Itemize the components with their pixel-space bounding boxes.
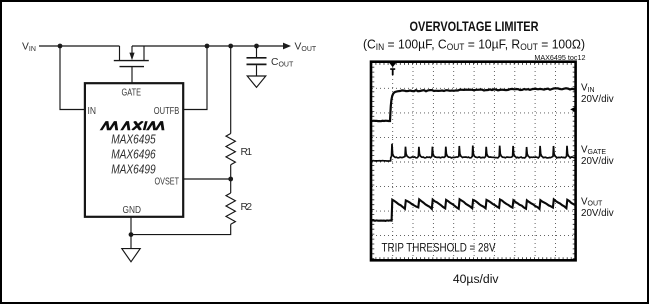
node VOUT label [295,42,317,54]
svg-text:MAX6496: MAX6496 [111,147,156,161]
node junction dot at VIN branch [58,44,63,49]
svg-text:GND: GND [123,205,142,216]
wire rail to R1 [230,46,232,134]
node junction dot R1 top [228,44,233,49]
svg-text:GATE: GATE [122,87,142,98]
pin IN label [88,106,97,117]
ground symbol main [122,249,140,262]
resistor R2 [226,193,235,224]
axis label 40us/div [453,272,500,286]
svg-text:40µs/div: 40µs/div [453,272,500,286]
svg-text:20V/div: 20V/div [581,156,614,167]
node junction dot COUT [254,44,259,49]
label VIN 20V/div [581,83,614,105]
node VIN label [22,42,36,54]
IC U1 MAX6495/MAX6496/MAX6499 [85,83,183,217]
MAXIM logo [100,121,166,132]
svg-text:(CIN = 100µF, COUT = 10µF, ROU: (CIN = 100µF, COUT = 10µF, ROUT = 100Ω) [363,37,585,53]
wire R1 to OVSET node [230,165,232,193]
pin OVSET label [155,176,180,187]
part number MAX6496 [111,147,156,161]
wire OUTFB feedback [184,46,208,110]
pin OUTFB label [154,106,180,117]
scope tick marks [372,62,575,259]
svg-text:20V/div: 20V/div [581,94,614,105]
title OVERVOLTAGE LIMITER [410,19,539,34]
svg-text:TRIP THRESHOLD = 28V: TRIP THRESHOLD = 28V [382,242,496,255]
wire GND pin down [130,217,132,249]
scope plot frame [371,62,576,261]
trigger marker T [389,63,396,75]
node junction dot OVSET [228,177,233,182]
trigger level marker right [570,107,574,112]
transistor Q1 nFET pass element [114,46,149,83]
pin GATE label [122,87,142,98]
wire VIN rail to MOSFET source [39,45,120,47]
node VOUT arrow [283,43,291,50]
svg-text:OVSET: OVSET [155,176,180,187]
svg-text:MAX6499: MAX6499 [111,162,156,176]
svg-text:R2: R2 [241,202,253,213]
wire VIN branch down to IN pin [60,46,85,110]
node R2 label [241,202,253,213]
trace VGATE [372,144,575,161]
svg-text:IN: IN [88,106,97,117]
svg-text:OVERVOLTAGE LIMITER: OVERVOLTAGE LIMITER [410,19,539,34]
node junction dot OUTFB [205,44,210,49]
part number MAX6495 [111,132,156,146]
trace VIN [372,88,575,121]
svg-text:MAX6495: MAX6495 [111,132,156,146]
svg-text:R1: R1 [241,147,253,158]
trace VOUT [372,199,575,221]
ground symbol COUT [247,76,266,87]
part number MAX6499 [111,162,156,176]
node junction dot GND [129,232,134,237]
svg-text:20V/div: 20V/div [581,208,614,219]
node R1 label [241,147,253,158]
label VGATE 20V/div [581,144,614,167]
label VOUT 20V/div [581,196,614,219]
wire R2 bottom to ground bus [131,224,231,234]
annotation TRIP THRESHOLD [382,242,496,255]
scope grid dotted lines [372,63,575,260]
wire rail to COUT [256,46,258,57]
node COUT label [271,57,294,69]
capacitor COUT [247,58,267,76]
pin GND label [123,205,142,216]
wire OVSET pin [184,178,231,180]
resistor R1 [226,134,235,165]
watermark MAX6495 toc12 [534,53,585,62]
wire drain rail to VOUT [132,45,284,47]
svg-text:OUTFB: OUTFB [154,106,180,117]
subtitle conditions [363,37,585,53]
